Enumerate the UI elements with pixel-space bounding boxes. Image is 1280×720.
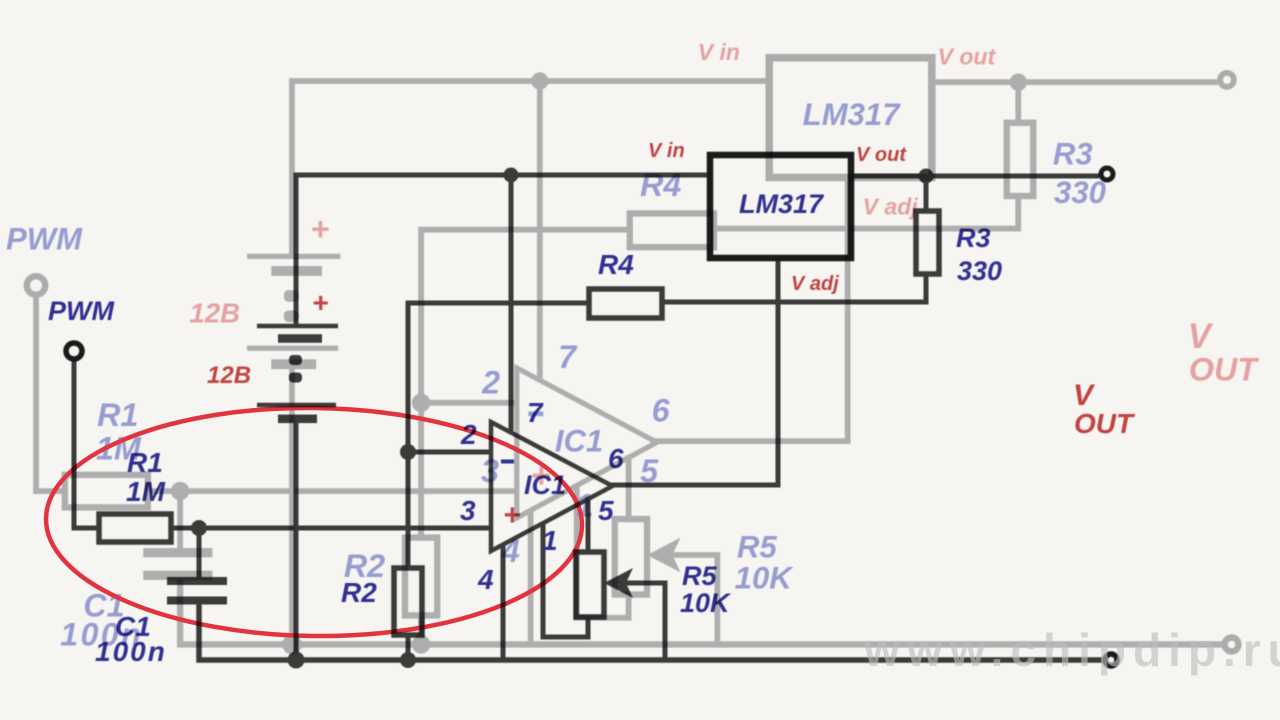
- svg-text:OUT: OUT: [1074, 408, 1136, 439]
- svg-text:LM317: LM317: [739, 189, 825, 219]
- svg-text:V: V: [1188, 318, 1214, 356]
- svg-text:PWM: PWM: [6, 221, 83, 256]
- svg-text:330: 330: [1054, 175, 1107, 210]
- svg-text:R1: R1: [127, 447, 163, 478]
- svg-text:+: +: [312, 287, 328, 318]
- svg-text:R3: R3: [956, 223, 991, 253]
- svg-text:1: 1: [542, 525, 558, 556]
- svg-text:V in: V in: [698, 39, 740, 65]
- svg-text:10K: 10K: [735, 561, 795, 596]
- svg-text:12B: 12B: [189, 298, 240, 329]
- svg-text:LM317: LM317: [803, 97, 901, 132]
- svg-text:OUT: OUT: [1189, 352, 1260, 388]
- svg-text:5: 5: [598, 495, 614, 526]
- svg-text:V out: V out: [856, 144, 907, 166]
- svg-text:7: 7: [558, 339, 578, 375]
- svg-text:6: 6: [652, 392, 671, 428]
- svg-text:R5: R5: [682, 561, 717, 591]
- svg-text:PWM: PWM: [48, 296, 114, 326]
- svg-text:IC1: IC1: [555, 424, 603, 459]
- svg-text:10K: 10K: [680, 588, 732, 618]
- svg-text:V out: V out: [938, 44, 997, 70]
- svg-text:IC1: IC1: [524, 470, 566, 500]
- svg-text:12B: 12B: [207, 362, 251, 389]
- svg-text:7: 7: [527, 397, 544, 428]
- svg-text:2: 2: [481, 364, 500, 400]
- svg-text:R1: R1: [97, 397, 138, 433]
- svg-text:2: 2: [460, 419, 477, 450]
- svg-text:1M: 1M: [126, 476, 166, 507]
- svg-text:V adj: V adj: [863, 194, 919, 220]
- svg-text:4: 4: [477, 564, 494, 595]
- svg-text:3: 3: [460, 495, 476, 526]
- svg-text:6: 6: [608, 443, 624, 474]
- svg-text:330: 330: [957, 256, 1002, 286]
- svg-text:www.chipdip.ru: www.chipdip.ru: [863, 624, 1280, 676]
- svg-text:R3: R3: [1053, 137, 1093, 172]
- svg-text:R4: R4: [640, 167, 681, 203]
- svg-text:V adj: V adj: [791, 273, 839, 295]
- svg-text:+: +: [503, 499, 521, 532]
- svg-text:R2: R2: [341, 577, 377, 608]
- svg-text:R4: R4: [598, 249, 634, 280]
- svg-text:R5: R5: [737, 529, 777, 564]
- svg-text:V in: V in: [648, 140, 685, 162]
- svg-text:100n: 100n: [95, 636, 167, 667]
- svg-text:+: +: [310, 211, 329, 247]
